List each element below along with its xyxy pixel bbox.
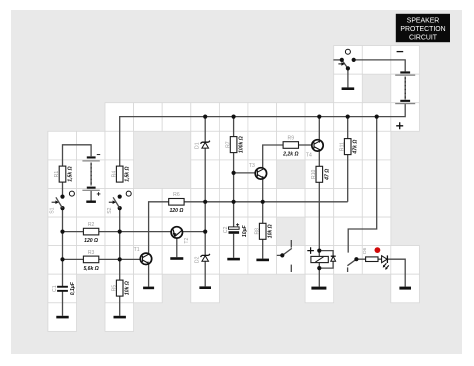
svg-text:T4: T4 xyxy=(306,153,312,159)
svg-text:47 Ω: 47 Ω xyxy=(324,169,330,181)
switch S3 arrow xyxy=(338,63,342,65)
ground R5 xyxy=(114,316,126,319)
node S2 upper contact xyxy=(118,195,122,199)
node S1 upper contact xyxy=(60,195,64,199)
wire relay coil top xyxy=(319,251,333,257)
wire R1 bottom to switch S1 xyxy=(62,182,64,196)
switch S2 xyxy=(113,197,120,208)
wire +rail down column 12 to relay contact xyxy=(348,117,377,253)
wire C2 bottom to ground xyxy=(233,234,235,258)
svg-text:R1: R1 xyxy=(54,171,60,178)
wire T2 collector to node at D2 column xyxy=(183,231,206,233)
white grid cell background xyxy=(48,46,419,332)
wire relay coil bottom xyxy=(319,261,333,268)
wire T2 emitter to ground xyxy=(176,238,178,257)
wire T3 base xyxy=(234,172,256,174)
resistor R2 120 xyxy=(83,228,98,235)
wire R1 top to battery B1 top xyxy=(63,145,92,166)
resistor R4 1.5k xyxy=(116,166,123,182)
svg-text:47k Ω: 47k Ω xyxy=(353,140,359,155)
node S1 lower contact xyxy=(60,206,64,210)
wire R9 right to T4 base xyxy=(299,144,312,146)
battery B1 (left) xyxy=(87,156,96,158)
ground D2 xyxy=(199,286,211,289)
battery B2 (right) xyxy=(400,71,410,73)
svg-text:1,5k Ω: 1,5k Ω xyxy=(68,166,74,181)
capacitor C1 0.1uF xyxy=(57,286,68,288)
node mid wire/D1 column xyxy=(203,200,207,204)
resistor R1 1.5k xyxy=(59,166,66,182)
svg-text:120 Ω: 120 Ω xyxy=(84,238,98,244)
switch S1 xyxy=(56,197,63,208)
svg-text:D6: D6 xyxy=(362,247,368,253)
wire T1 collector to R6 left / mid horizontal wire to R11 xyxy=(149,202,348,254)
resistor R6 120 xyxy=(169,199,184,206)
ground S3 xyxy=(342,87,355,90)
wire S1 down through R2,R3 junctions to C1 xyxy=(62,208,64,286)
wire S3 to battery B2 top xyxy=(354,60,406,72)
wire +rail through D1, D2 to ground (column 6) xyxy=(204,117,206,287)
node T2 collector/D2 xyxy=(203,230,207,234)
svg-text:R7: R7 xyxy=(225,141,231,148)
resistor R10 47 xyxy=(316,166,323,182)
svg-text:R6: R6 xyxy=(173,192,180,198)
speaker contact upper stub xyxy=(290,240,292,248)
wire relay contact to R12, LED D6, to ground xyxy=(356,259,405,286)
LED D6 xyxy=(382,256,388,263)
resistor R3 5.6k xyxy=(83,256,98,263)
ground R8 xyxy=(256,259,269,262)
svg-text:10k Ω: 10k Ω xyxy=(125,281,131,295)
resistor R9 2.2k xyxy=(283,142,298,149)
svg-text:CIRCUIT: CIRCUIT xyxy=(409,34,438,41)
speaker contact lower stub xyxy=(290,265,292,272)
relay contact lever (right) xyxy=(347,259,356,266)
node relay contact pivot xyxy=(354,257,358,261)
svg-text:C1: C1 xyxy=(52,285,58,292)
svg-text:5,6k Ω: 5,6k Ω xyxy=(83,266,98,272)
ground T2 emitter xyxy=(170,257,183,260)
zener diode D2 xyxy=(201,254,210,257)
node R3 right junction xyxy=(118,257,122,261)
node R3 left junction xyxy=(60,257,64,261)
svg-text:SPEAKER: SPEAKER xyxy=(407,18,440,25)
svg-text:R11: R11 xyxy=(339,142,345,151)
svg-text:PROTECTION: PROTECTION xyxy=(400,26,445,33)
node speaker contact pivot xyxy=(280,253,284,257)
wire switch S3 stub xyxy=(333,59,341,61)
svg-text:R9: R9 xyxy=(288,135,295,141)
node rail/D1 xyxy=(203,115,207,119)
svg-text:R8: R8 xyxy=(254,228,260,235)
transistor T4 xyxy=(312,140,323,151)
svg-text:10k Ω: 10k Ω xyxy=(268,224,274,238)
transistor T2 xyxy=(171,227,182,238)
node R2 left junction xyxy=(60,230,64,234)
node rail/col12 xyxy=(375,115,379,119)
svg-text:120 Ω: 120 Ω xyxy=(169,208,183,214)
title box SPEAKER PROTECTION CIRCUIT xyxy=(396,14,450,42)
resistor R12 (LED series) xyxy=(366,257,378,262)
node rail/T4 xyxy=(317,115,321,119)
node rail/R11 xyxy=(346,115,350,119)
wire R2 row to T2 base xyxy=(63,231,172,233)
switch S3 indicator circle xyxy=(345,49,350,54)
resistor R11 47k xyxy=(344,139,351,155)
resistor R8 10k xyxy=(259,223,266,239)
wire T3 emitter down through R8 to ground xyxy=(262,179,264,259)
node relay coil bottom xyxy=(317,266,321,270)
wire S3 to ground xyxy=(347,68,349,87)
wire T1 emitter to ground xyxy=(148,264,150,287)
svg-text:0,1µF: 0,1µF xyxy=(70,281,76,295)
svg-text:1,5k Ω: 1,5k Ω xyxy=(125,166,131,181)
switch S3 lever xyxy=(342,60,348,69)
svg-text:2,2k Ω: 2,2k Ω xyxy=(282,151,298,157)
wire R5 to ground xyxy=(119,296,121,316)
relay contact lower stub xyxy=(347,267,349,272)
ground relay xyxy=(311,287,326,290)
ground LED D6 xyxy=(399,287,411,290)
node S3 left contact xyxy=(340,58,344,62)
svg-text:D1: D1 xyxy=(195,142,201,149)
svg-text:T1: T1 xyxy=(134,247,140,253)
node relay coil top xyxy=(317,249,321,253)
svg-text:R2: R2 xyxy=(88,222,95,228)
svg-text:D2: D2 xyxy=(195,256,201,263)
node mid wire/T3 emitter xyxy=(261,200,265,204)
node S3 lever end xyxy=(346,66,350,70)
svg-text:S1: S1 xyxy=(50,207,56,213)
wire T4 emitter up to +rail xyxy=(318,117,320,140)
wire T3 collector up to R9 left xyxy=(263,145,283,168)
svg-text:T2: T2 xyxy=(184,237,190,243)
speaker contact lever and left stub xyxy=(277,248,292,255)
battery B1 dashed cells xyxy=(90,164,92,185)
wire R3 row to T1 base xyxy=(63,258,141,260)
svg-text:C2: C2 xyxy=(223,226,229,233)
wire +rail through R11 (column 11) xyxy=(347,117,349,202)
node R2 right junction xyxy=(118,230,122,234)
svg-text:10µF: 10µF xyxy=(242,224,248,237)
node rail/R7 xyxy=(232,115,236,119)
node T3 base/R7 xyxy=(232,171,236,175)
node mid wire/C2 column xyxy=(232,200,236,204)
svg-text:T3: T3 xyxy=(249,163,255,169)
node S2 lower contact xyxy=(118,206,122,210)
wire R4 top, main +rail to right battery B2 xyxy=(120,104,406,166)
zener diode D1 xyxy=(201,141,210,144)
ground battery B1 xyxy=(86,201,96,203)
svg-text:R10: R10 xyxy=(311,169,317,179)
wire S2 down through R2,R3 junctions to R5 xyxy=(119,208,121,280)
resistor R5 10k xyxy=(116,280,123,296)
LED red indicator dot xyxy=(375,247,381,253)
battery B2 dashed cells xyxy=(404,78,406,99)
capacitor C2 10uF electrolytic xyxy=(229,227,240,229)
relay RE1 coil xyxy=(311,256,328,262)
wire relay to ground xyxy=(318,268,320,287)
ground C1 xyxy=(56,316,68,319)
svg-text:R5: R5 xyxy=(111,285,117,292)
ground T1 emitter xyxy=(143,287,154,290)
svg-text:100k Ω: 100k Ω xyxy=(239,136,245,153)
wire +rail through R7 to C2 (column 7) xyxy=(233,117,235,228)
wire battery B1 bottom to ground xyxy=(90,191,92,201)
wire C1 to ground xyxy=(62,291,64,316)
svg-text:R4: R4 xyxy=(111,171,117,178)
resistor R7 100k xyxy=(230,137,237,153)
relay flyback diode D5 xyxy=(331,255,336,257)
svg-text:R3: R3 xyxy=(88,250,95,256)
transistor T1 xyxy=(140,253,151,264)
wire T4 collector through R10 down to relay xyxy=(318,151,320,250)
ground C2 xyxy=(227,258,240,261)
svg-text:S2: S2 xyxy=(107,207,113,213)
transistor T3 xyxy=(255,168,266,179)
node S3 right contact xyxy=(352,58,356,62)
